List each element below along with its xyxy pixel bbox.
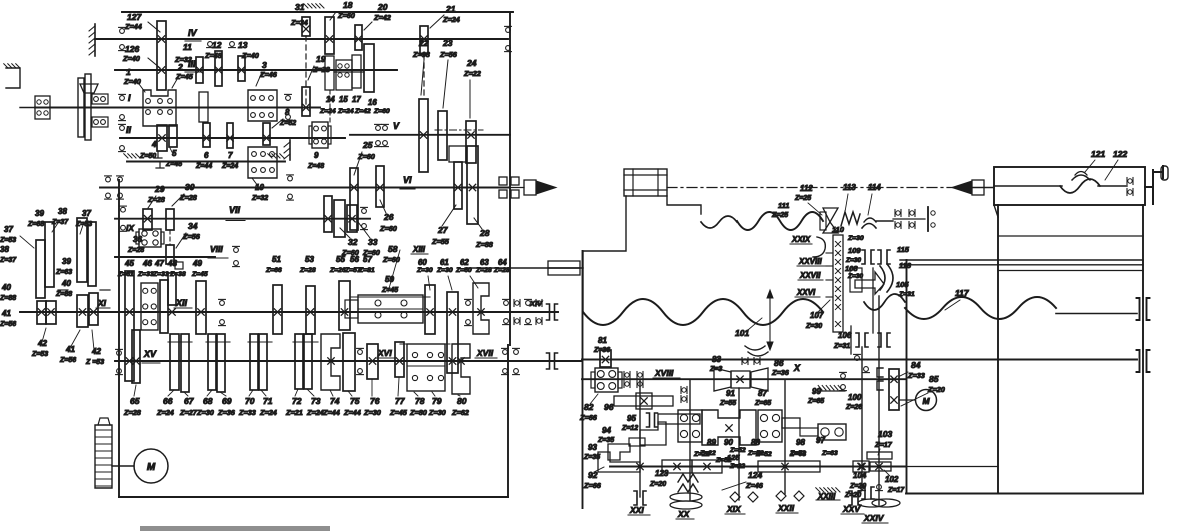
svg-text:122: 122 — [1113, 149, 1127, 159]
svg-text:89: 89 — [707, 438, 716, 447]
svg-text:Z=53: Z=53 — [31, 351, 48, 358]
svg-text:73: 73 — [311, 396, 321, 406]
svg-text:Z=48: Z=48 — [204, 51, 223, 60]
svg-text:Z=33: Z=33 — [907, 371, 925, 380]
svg-text:XXVI: XXVI — [796, 288, 816, 297]
svg-text:105: 105 — [896, 280, 909, 289]
svg-text:Z=62: Z=62 — [451, 408, 469, 417]
svg-text:Z=66: Z=66 — [579, 413, 598, 422]
svg-text:70: 70 — [245, 396, 255, 406]
svg-text:63: 63 — [480, 258, 489, 267]
svg-text:Z=27: Z=27 — [179, 408, 198, 417]
svg-text:41: 41 — [1, 309, 11, 318]
svg-text:Z=22: Z=22 — [463, 69, 481, 78]
svg-text:Z=45: Z=45 — [191, 271, 208, 278]
svg-text:116: 116 — [899, 261, 912, 270]
svg-text:115: 115 — [897, 245, 910, 254]
svg-text:13: 13 — [238, 40, 248, 50]
svg-text:111: 111 — [778, 201, 789, 210]
svg-text:X: X — [793, 363, 801, 373]
svg-text:Z=3: Z=3 — [709, 366, 722, 373]
svg-text:34: 34 — [188, 221, 198, 231]
svg-text:24: 24 — [466, 58, 477, 68]
svg-text:VI: VI — [403, 175, 412, 185]
svg-text:Z=63: Z=63 — [821, 450, 838, 457]
svg-text:79: 79 — [432, 396, 442, 406]
svg-text:Z=44: Z=44 — [322, 408, 340, 417]
svg-text:98: 98 — [796, 438, 805, 447]
svg-text:V: V — [393, 121, 400, 131]
svg-text:47: 47 — [154, 259, 164, 268]
svg-text:28: 28 — [479, 228, 490, 238]
svg-text:Z=88: Z=88 — [0, 295, 16, 302]
svg-text:99: 99 — [812, 387, 821, 396]
svg-text:Z=52: Z=52 — [755, 451, 772, 458]
svg-text:17: 17 — [352, 95, 361, 104]
svg-text:39: 39 — [35, 209, 44, 218]
svg-text:Z=24: Z=24 — [337, 108, 354, 115]
svg-text:Z=26: Z=26 — [329, 267, 346, 274]
svg-text:Z=21: Z=21 — [285, 408, 303, 417]
svg-text:65: 65 — [130, 396, 140, 406]
svg-text:Z=36: Z=36 — [771, 368, 790, 377]
svg-text:37: 37 — [4, 225, 13, 234]
svg-text:Z=35: Z=35 — [597, 437, 614, 444]
svg-text:53: 53 — [305, 255, 314, 264]
svg-text:Z=56: Z=56 — [439, 50, 458, 59]
svg-text:Z=30: Z=30 — [805, 323, 822, 330]
svg-text:Z=42: Z=42 — [373, 13, 391, 22]
svg-text:117: 117 — [955, 288, 970, 298]
svg-text:Z=38: Z=38 — [169, 271, 186, 278]
svg-text:40: 40 — [1, 283, 11, 292]
svg-text:XVI: XVI — [377, 348, 392, 358]
svg-text:Z=45: Z=45 — [165, 161, 182, 168]
svg-text:123: 123 — [655, 469, 669, 478]
svg-text:Z=22: Z=22 — [693, 451, 710, 458]
svg-text:Z=28: Z=28 — [123, 408, 142, 417]
svg-text:M: M — [922, 396, 930, 406]
svg-text:Z=28: Z=28 — [147, 195, 166, 204]
svg-text:5: 5 — [172, 149, 177, 158]
svg-text:Z=80 Z=30: Z=80 Z=30 — [409, 408, 446, 417]
svg-text:Z=98: Z=98 — [412, 50, 431, 59]
svg-text:69: 69 — [222, 396, 232, 406]
svg-text:95: 95 — [627, 414, 636, 423]
svg-text:39: 39 — [62, 257, 71, 266]
svg-text:8: 8 — [285, 108, 290, 117]
svg-text:7: 7 — [228, 151, 233, 160]
svg-text:12: 12 — [212, 40, 222, 50]
svg-text:55: 55 — [336, 255, 345, 264]
svg-text:Z=56: Z=56 — [182, 232, 201, 241]
svg-text:Z=68: Z=68 — [27, 221, 44, 228]
svg-text:Z=60: Z=60 — [379, 224, 397, 233]
svg-text:78: 78 — [415, 396, 425, 406]
svg-text:Z=63: Z=63 — [55, 269, 72, 276]
svg-text:81: 81 — [598, 336, 607, 345]
svg-text:26: 26 — [383, 212, 394, 222]
svg-text:Z=33: Z=33 — [238, 408, 256, 417]
svg-text:106: 106 — [838, 331, 852, 340]
svg-text:Z=37: Z=37 — [0, 257, 17, 264]
svg-text:85: 85 — [929, 374, 939, 384]
svg-text:Z=24: Z=24 — [156, 408, 174, 417]
svg-text:38: 38 — [58, 207, 67, 216]
svg-text:Z=32: Z=32 — [174, 55, 192, 64]
svg-text:Z=40: Z=40 — [122, 54, 140, 63]
svg-text:Z=40: Z=40 — [241, 51, 259, 60]
svg-text:Z=26: Z=26 — [845, 404, 862, 411]
svg-text:XVIII: XVIII — [654, 368, 674, 378]
svg-text:15: 15 — [339, 95, 348, 104]
svg-text:XIV: XIV — [529, 299, 543, 308]
svg-text:Z=88: Z=88 — [55, 291, 72, 298]
svg-text:Z=36: Z=36 — [593, 347, 610, 354]
svg-text:57: 57 — [363, 255, 372, 264]
svg-text:93: 93 — [588, 443, 597, 452]
svg-text:Z=30: Z=30 — [363, 408, 381, 417]
svg-text:109: 109 — [848, 246, 861, 255]
svg-text:XIII: XIII — [412, 245, 426, 254]
svg-text:XX: XX — [677, 509, 691, 519]
svg-text:6: 6 — [204, 151, 209, 160]
svg-text:16: 16 — [368, 98, 377, 107]
svg-text:33: 33 — [368, 237, 378, 247]
svg-text:Z=60: Z=60 — [373, 108, 390, 115]
svg-text:114: 114 — [868, 183, 881, 192]
svg-text:91: 91 — [726, 389, 735, 398]
svg-text:Z=60: Z=60 — [337, 11, 355, 20]
svg-text:Z=56: Z=56 — [0, 321, 16, 328]
svg-text:102: 102 — [885, 475, 899, 484]
svg-text:92: 92 — [588, 470, 598, 480]
svg-text:Z=24: Z=24 — [442, 15, 460, 24]
svg-text:Z=24: Z=24 — [221, 163, 238, 170]
svg-text:49: 49 — [192, 259, 202, 268]
svg-text:56: 56 — [350, 255, 359, 264]
svg-text:Z=60: Z=60 — [455, 267, 472, 274]
svg-text:XVII: XVII — [476, 348, 494, 358]
svg-text:88: 88 — [751, 438, 760, 447]
svg-text:107: 107 — [810, 311, 824, 320]
svg-text:Z=24: Z=24 — [306, 408, 324, 417]
svg-text:58: 58 — [388, 244, 398, 254]
svg-text:Z=30: Z=30 — [436, 267, 453, 274]
svg-text:64: 64 — [498, 258, 507, 267]
svg-text:32: 32 — [348, 237, 358, 247]
svg-text:71: 71 — [263, 396, 273, 406]
svg-text:XXIV: XXIV — [863, 513, 885, 523]
svg-text:60: 60 — [418, 258, 427, 267]
svg-text:Z=12: Z=12 — [621, 425, 638, 432]
svg-text:86: 86 — [774, 358, 784, 368]
svg-text:27: 27 — [437, 225, 449, 235]
svg-text:XXVIII: XXVIII — [798, 257, 822, 266]
svg-text:Z=44: Z=44 — [124, 22, 142, 31]
svg-text:61: 61 — [440, 258, 449, 267]
svg-text:51: 51 — [272, 255, 281, 264]
svg-text:46: 46 — [142, 259, 152, 268]
svg-text:VIII: VIII — [210, 244, 223, 254]
svg-text:66: 66 — [163, 396, 173, 406]
svg-text:112: 112 — [800, 184, 813, 193]
svg-text:Z=28: Z=28 — [127, 247, 144, 254]
svg-text:Z=25: Z=25 — [794, 195, 811, 202]
svg-text:Z=46: Z=46 — [259, 70, 278, 79]
svg-text:Z=81: Z=81 — [358, 267, 375, 274]
svg-text:Z=42: Z=42 — [354, 108, 371, 115]
svg-text:18: 18 — [343, 0, 353, 10]
svg-text:Z=56: Z=56 — [59, 357, 76, 364]
svg-text:3: 3 — [262, 60, 267, 70]
svg-text:9: 9 — [314, 151, 319, 160]
svg-text:Z=66: Z=66 — [265, 267, 282, 274]
svg-text:104: 104 — [853, 471, 867, 480]
svg-text:62: 62 — [460, 258, 469, 267]
svg-text:14: 14 — [326, 95, 335, 104]
svg-text:XXI: XXI — [629, 505, 644, 515]
svg-text:126: 126 — [125, 44, 139, 54]
svg-text:41: 41 — [65, 345, 75, 354]
svg-text:94: 94 — [602, 426, 611, 435]
svg-text:23: 23 — [442, 38, 453, 48]
svg-text:Z=17: Z=17 — [887, 487, 905, 494]
svg-text:Z=45: Z=45 — [175, 72, 194, 81]
svg-text:XV: XV — [143, 349, 157, 359]
svg-text:Z=48: Z=48 — [307, 163, 324, 170]
svg-text:Z=65: Z=65 — [754, 400, 771, 407]
svg-text:Z=44: Z=44 — [195, 163, 212, 170]
svg-text:80: 80 — [457, 396, 467, 406]
svg-text:Z=34: Z=34 — [290, 18, 308, 27]
svg-text:121: 121 — [1091, 149, 1105, 159]
svg-text:I: I — [128, 93, 131, 103]
svg-text:74: 74 — [330, 396, 340, 406]
svg-text:30: 30 — [185, 182, 195, 192]
svg-text:VII: VII — [229, 205, 241, 215]
svg-text:Z=88: Z=88 — [475, 240, 494, 249]
svg-text:1: 1 — [126, 67, 131, 77]
svg-text:Z=45: Z=45 — [381, 287, 398, 294]
svg-text:Z=33: Z=33 — [137, 271, 154, 278]
svg-text:77: 77 — [395, 396, 406, 406]
svg-text:IX: IX — [126, 223, 135, 233]
svg-text:21: 21 — [445, 4, 456, 14]
svg-text:124: 124 — [748, 470, 762, 480]
svg-text:2: 2 — [177, 62, 183, 72]
svg-text:Z=30: Z=30 — [196, 408, 214, 417]
svg-text:Z=30: Z=30 — [416, 267, 433, 274]
svg-text:37: 37 — [82, 209, 91, 218]
svg-text:Z=44: Z=44 — [343, 408, 361, 417]
svg-text:25: 25 — [362, 140, 373, 150]
svg-text:Z=28: Z=28 — [312, 65, 331, 74]
svg-text:125: 125 — [727, 453, 740, 462]
svg-text:XI: XI — [97, 298, 107, 308]
svg-text:100: 100 — [848, 393, 862, 402]
svg-text:48: 48 — [167, 259, 177, 268]
svg-text:Z=46: Z=46 — [745, 481, 764, 490]
svg-text:20: 20 — [377, 2, 388, 12]
svg-text:40: 40 — [61, 279, 71, 288]
svg-text:4: 4 — [151, 140, 157, 149]
svg-text:Z=65: Z=65 — [807, 398, 824, 405]
svg-text:Z=17: Z=17 — [874, 440, 893, 449]
svg-text:75: 75 — [350, 396, 360, 406]
svg-text:IV: IV — [188, 28, 198, 38]
svg-text:Z=55: Z=55 — [431, 237, 450, 246]
svg-text:XIX: XIX — [726, 504, 742, 514]
svg-text:11: 11 — [183, 42, 192, 52]
svg-text:XII: XII — [175, 298, 188, 308]
svg-text:84: 84 — [911, 360, 921, 370]
svg-text:Z=66: Z=66 — [583, 481, 602, 490]
svg-text:90: 90 — [724, 438, 733, 447]
svg-text:Z =53: Z =53 — [85, 359, 104, 366]
svg-text:Z=24: Z=24 — [259, 408, 277, 417]
svg-text:Z=63: Z=63 — [789, 451, 806, 458]
svg-text:Z=55: Z=55 — [719, 400, 736, 407]
svg-text:110: 110 — [832, 225, 845, 234]
svg-text:113: 113 — [843, 183, 856, 192]
svg-text:31: 31 — [295, 2, 305, 12]
svg-text:68: 68 — [203, 396, 213, 406]
svg-text:97: 97 — [816, 436, 825, 445]
svg-text:82: 82 — [584, 402, 594, 412]
svg-text:Z=25: Z=25 — [771, 212, 788, 219]
svg-text:Z=40: Z=40 — [123, 77, 141, 86]
svg-text:22: 22 — [418, 38, 429, 48]
svg-text:96: 96 — [604, 402, 614, 412]
svg-text:XXII: XXII — [777, 503, 795, 513]
svg-text:38: 38 — [0, 245, 9, 254]
svg-text:Z=53: Z=53 — [0, 237, 16, 244]
svg-text:72: 72 — [292, 396, 302, 406]
svg-text:Z=33: Z=33 — [152, 271, 169, 278]
svg-text:59: 59 — [385, 275, 394, 284]
svg-text:45: 45 — [124, 259, 134, 268]
svg-text:42: 42 — [91, 347, 101, 356]
svg-text:36: 36 — [133, 235, 142, 244]
svg-text:Z=36: Z=36 — [217, 408, 236, 417]
svg-text:Z=32: Z=32 — [251, 195, 268, 202]
svg-text:101: 101 — [735, 328, 749, 338]
svg-text:Z=24: Z=24 — [319, 108, 336, 115]
svg-text:19: 19 — [316, 54, 326, 64]
svg-text:Z=28: Z=28 — [475, 267, 492, 274]
svg-text:XXVII: XXVII — [799, 271, 821, 280]
svg-text:Z=31: Z=31 — [833, 343, 850, 350]
svg-text:Z=28: Z=28 — [299, 267, 316, 274]
svg-text:Z=30: Z=30 — [845, 257, 861, 264]
svg-text:Z=50: Z=50 — [139, 153, 156, 160]
svg-text:II: II — [126, 125, 132, 135]
svg-text:Z=45: Z=45 — [389, 408, 408, 417]
svg-text:XXIX: XXIX — [791, 235, 811, 244]
svg-text:M: M — [147, 462, 156, 473]
svg-text:Z=28: Z=28 — [179, 193, 198, 202]
svg-text:Z=20: Z=20 — [649, 481, 666, 488]
svg-text:83: 83 — [712, 355, 721, 364]
svg-text:103: 103 — [878, 429, 892, 439]
svg-text:67: 67 — [184, 396, 195, 406]
svg-text:29: 29 — [154, 184, 165, 194]
svg-text:87: 87 — [758, 389, 767, 398]
svg-text:Z=52: Z=52 — [279, 120, 296, 127]
svg-text:Z=28: Z=28 — [493, 267, 510, 274]
svg-text:XXV: XXV — [842, 504, 861, 514]
svg-text:Z=30: Z=30 — [847, 235, 864, 242]
svg-text:76: 76 — [370, 396, 380, 406]
svg-text:Z=22: Z=22 — [729, 463, 745, 470]
svg-text:127: 127 — [127, 12, 142, 22]
